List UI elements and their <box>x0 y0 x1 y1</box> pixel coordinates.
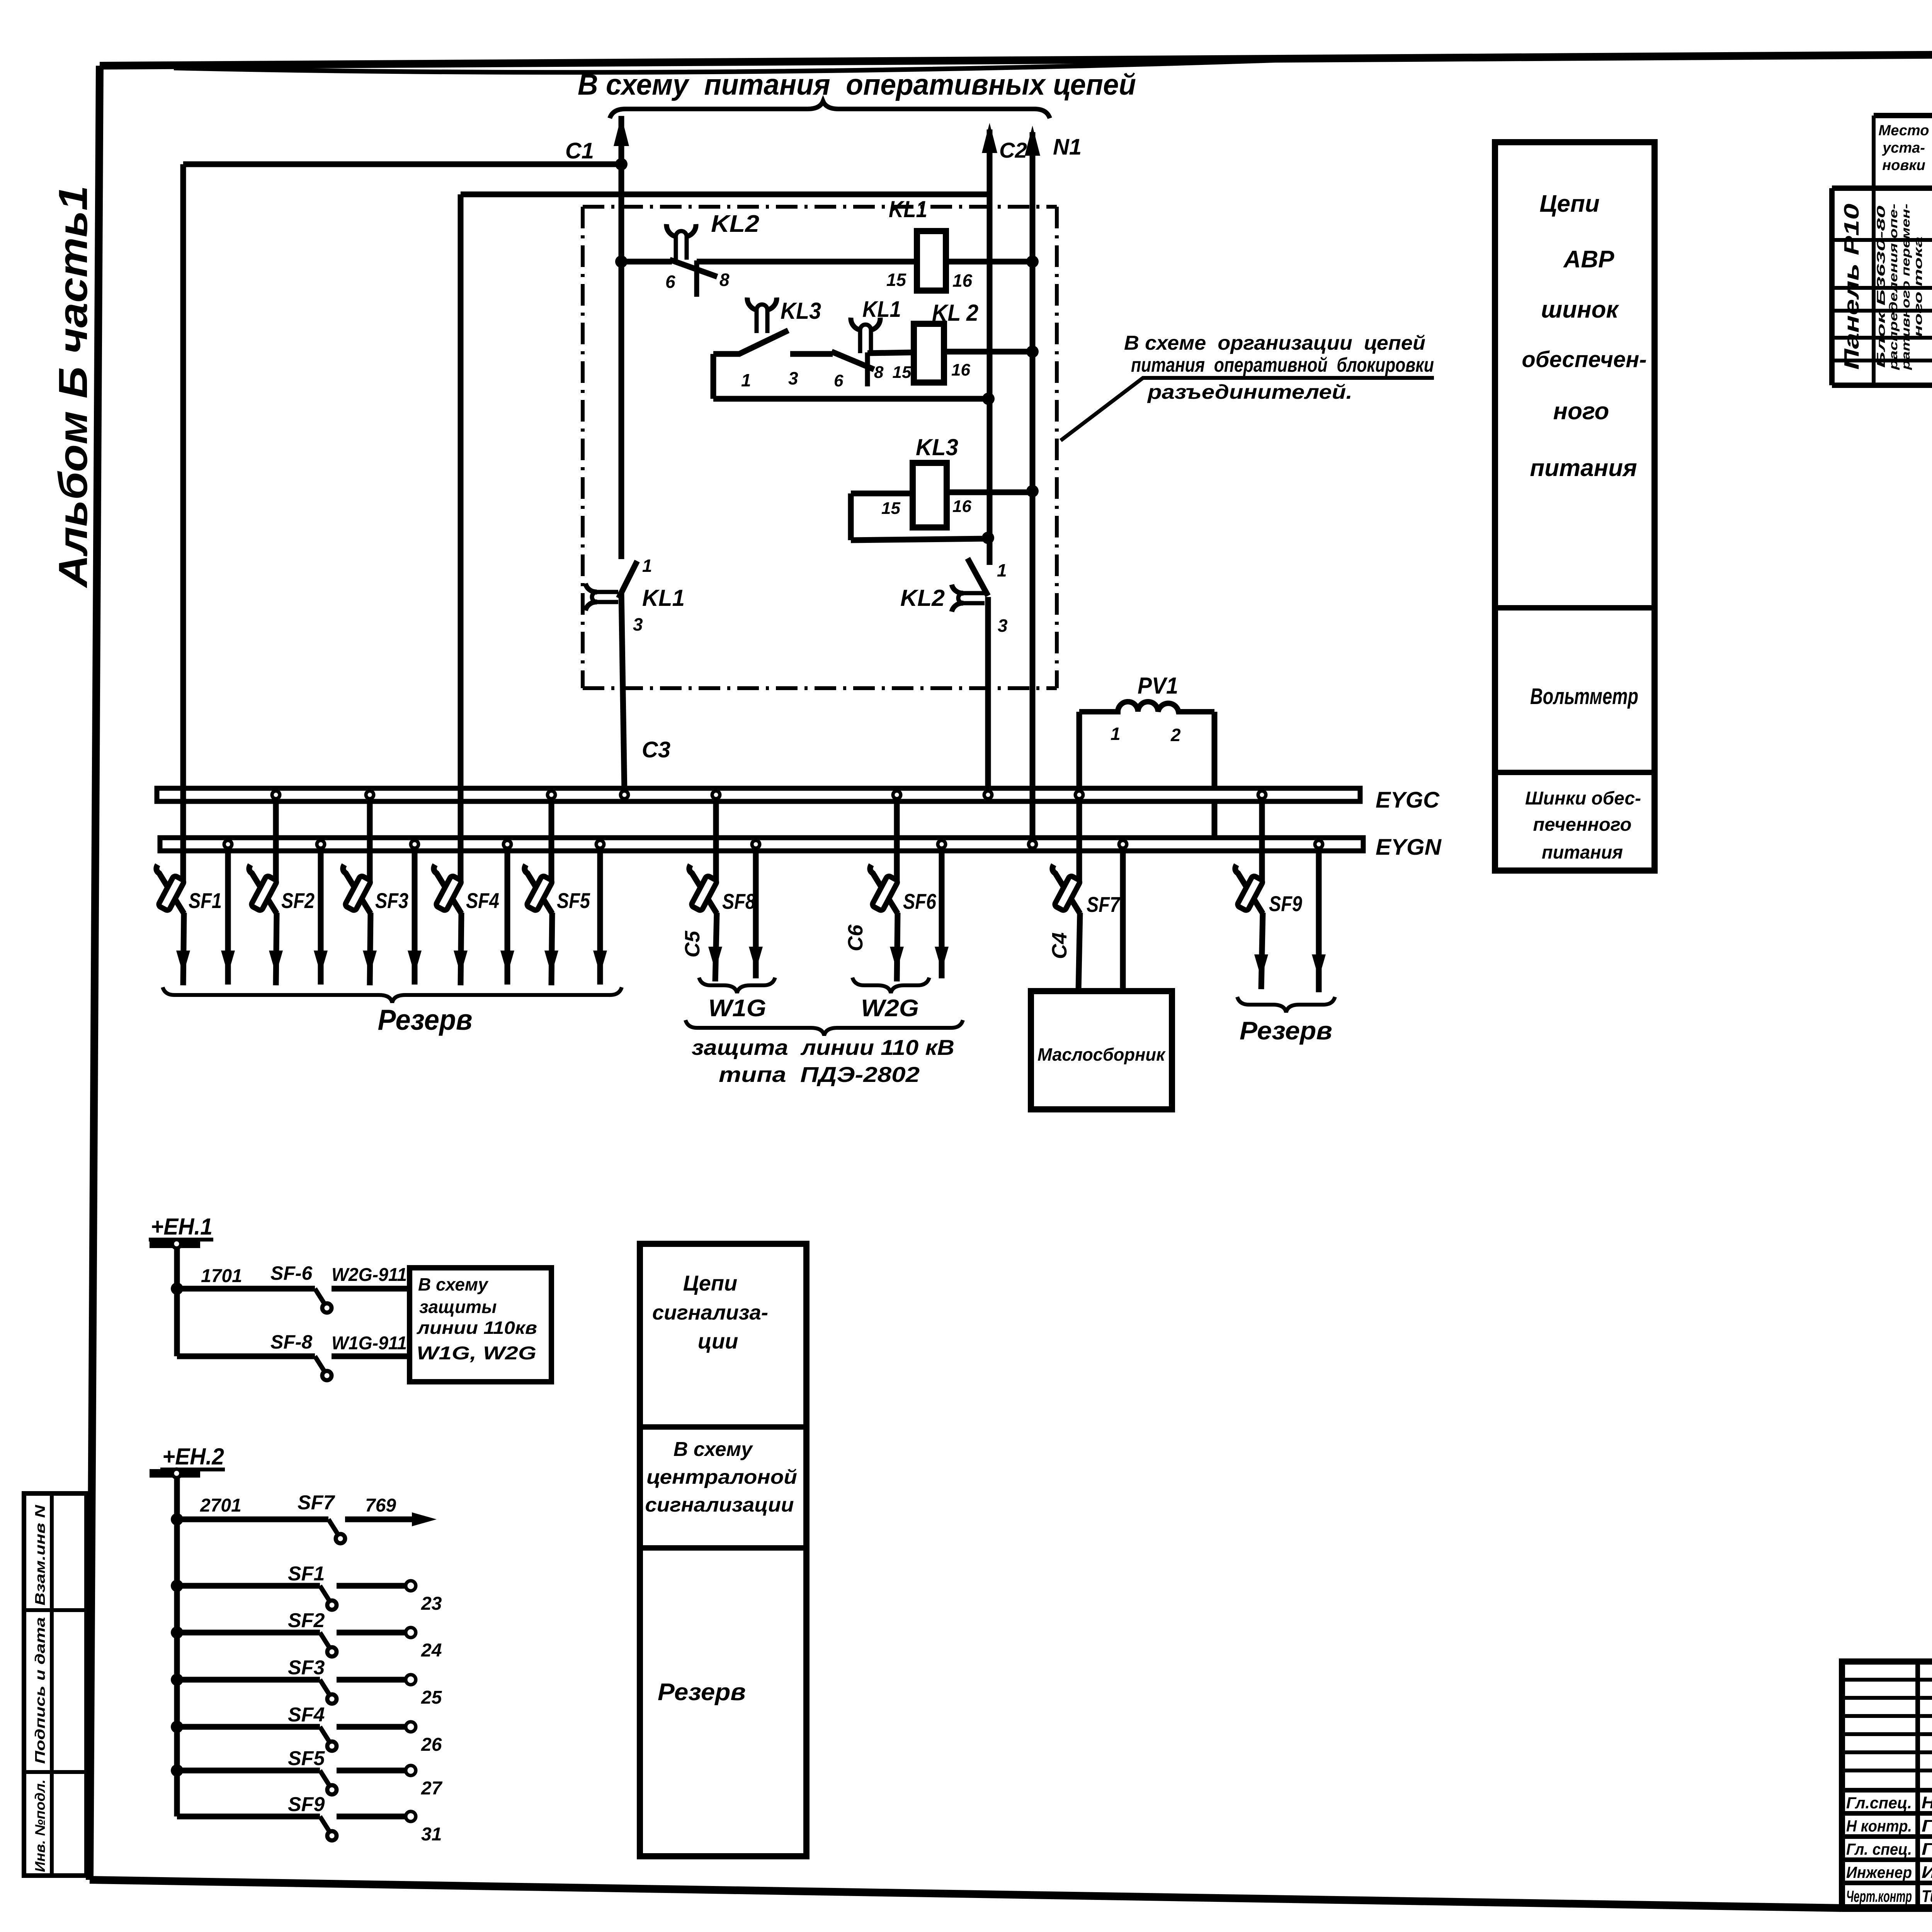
svg-text:16: 16 <box>951 361 970 379</box>
svg-text:769: 769 <box>365 1495 396 1516</box>
svg-text:C5: C5 <box>681 930 704 957</box>
svg-text:C6: C6 <box>844 924 867 951</box>
junction dot row2 return / C2 <box>982 393 995 405</box>
svg-text:KL2: KL2 <box>900 585 945 611</box>
tap SF3p2 on EYGN <box>411 840 418 848</box>
svg-text:В схему: В схему <box>418 1274 489 1294</box>
svg-text:SF2: SF2 <box>288 1609 325 1632</box>
svg-text:KL1: KL1 <box>862 297 901 322</box>
svg-text:питания: питания <box>1530 455 1637 481</box>
svg-text:Альбом Б часть1: Альбом Б часть1 <box>51 185 96 588</box>
wire: C1 feeder vertical to SF1 <box>180 164 186 883</box>
svg-text:16: 16 <box>952 270 973 291</box>
wire EH2 branch SF5 <box>171 1764 183 1777</box>
contact KL3 (1-3) row2 <box>755 310 759 333</box>
junction dot row3 / N1 <box>1026 485 1039 497</box>
svg-text:разъединителей.: разъединителей. <box>1147 381 1352 403</box>
svg-text:15: 15 <box>893 363 912 382</box>
tap N1 on EYGN <box>1029 840 1036 848</box>
svg-text:C2: C2 <box>999 138 1027 162</box>
wire EH2 branch 2701/SF7 <box>171 1513 183 1526</box>
svg-text:W1G, W2G: W1G, W2G <box>417 1343 536 1364</box>
svg-text:питания оперативной блокиров: питания оперативной блокировки <box>1131 354 1434 376</box>
wire N1 crossing bus EYGC <box>1030 788 1036 801</box>
tap SF7/PV1 on EYGC <box>1077 796 1082 883</box>
svg-text:SF8: SF8 <box>722 889 756 913</box>
breaker pole arrow <box>500 951 514 975</box>
svg-text:ративного перемен-: ративного перемен- <box>1900 204 1912 370</box>
svg-text:KL3: KL3 <box>916 434 958 460</box>
svg-text:1: 1 <box>642 556 652 576</box>
svg-text:SF6: SF6 <box>903 889 937 913</box>
svg-text:27: 27 <box>421 1778 443 1799</box>
svg-text:АВР: АВР <box>1563 246 1615 273</box>
svg-text:В схеме организации цепей: В схеме организации цепей <box>1124 332 1425 354</box>
svg-text:шинок: шинок <box>1541 296 1619 323</box>
svg-text:2701: 2701 <box>200 1495 241 1516</box>
vertical line N1 <box>1030 132 1036 842</box>
tap C2 on EYGC <box>984 791 992 799</box>
tap SF5p2 on EYGN <box>596 840 604 848</box>
svg-text:SF1: SF1 <box>288 1563 325 1585</box>
wire EH2 branch SF3 <box>171 1673 183 1686</box>
contact SF1 <box>320 1586 329 1600</box>
wire row2 return U <box>711 354 716 399</box>
breaker pole arrow <box>221 951 235 975</box>
svg-text:+EH.1: +EH.1 <box>151 1214 213 1240</box>
contact KL2 (1-3) on C2 line <box>963 591 985 595</box>
junction dot row1/C1 <box>615 255 628 268</box>
svg-text:6: 6 <box>665 272 675 292</box>
svg-text:SF2: SF2 <box>281 888 315 913</box>
svg-text:Никитин: Никитин <box>1922 1793 1932 1812</box>
svg-text:защита линии 110 кВ: защита линии 110 кВ <box>692 1035 954 1060</box>
wire row3 right <box>947 490 1032 495</box>
svg-text:EYGC: EYGC <box>1376 787 1440 813</box>
tap SF8p2 on EYGN <box>752 840 760 848</box>
svg-text:SF-6: SF-6 <box>270 1262 313 1284</box>
svg-text:Шинки обес-: Шинки обес- <box>1525 788 1641 809</box>
svg-text:3: 3 <box>788 368 798 388</box>
breaker pole arrow <box>314 951 328 975</box>
svg-text:1: 1 <box>997 560 1007 580</box>
svg-text:Маслосборник: Маслосборник <box>1037 1044 1166 1065</box>
tap SF7p2 on EYGN <box>1119 840 1127 848</box>
junction dot feeder1/C1 <box>615 158 628 170</box>
contact SF3 <box>320 1680 329 1694</box>
svg-text:сигнализации: сигнализации <box>645 1494 794 1516</box>
node C2 feeder arrow <box>982 123 997 153</box>
wire EH2 trunk <box>174 1478 180 1816</box>
svg-text:16: 16 <box>952 497 971 516</box>
contact SF7 <box>328 1519 338 1534</box>
svg-text:Резерв: Резерв <box>378 1003 473 1036</box>
tap SF9p2 on EYGN <box>1315 840 1323 848</box>
svg-text:Панель Р10: Панель Р10 <box>1840 204 1863 370</box>
junction dot row3 return / C2 <box>982 532 994 544</box>
svg-text:SF7: SF7 <box>1087 892 1121 917</box>
svg-text:Тимофеева: Тимофеева <box>1922 1887 1932 1906</box>
wire EH2 branch SF4 <box>171 1721 183 1733</box>
svg-text:Резерв: Резерв <box>1240 1016 1332 1045</box>
terminal 26 <box>406 1722 416 1732</box>
svg-text:типа ПДЭ-2802: типа ПДЭ-2802 <box>719 1062 920 1087</box>
svg-text:25: 25 <box>421 1687 442 1708</box>
callout pointer to dash-dot box <box>1061 378 1434 440</box>
breaker pole arrow <box>593 951 607 975</box>
wire EH2 branch SF9 <box>177 1814 320 1820</box>
bus EYGN <box>160 838 1363 851</box>
wire row2 mid-a <box>790 351 833 357</box>
contact KL2 (6-8) row1 <box>674 236 678 260</box>
svg-text:ции: ции <box>698 1329 738 1353</box>
svg-text:24: 24 <box>421 1640 442 1661</box>
svg-text:Иванова: Иванова <box>1922 1863 1932 1882</box>
svg-text:N1: N1 <box>1053 134 1082 160</box>
tap SF8 on EYGC <box>713 796 719 883</box>
terminal 31 <box>406 1811 416 1821</box>
svg-text:C3: C3 <box>642 737 670 762</box>
svg-text:W1G: W1G <box>708 995 766 1022</box>
breaker SF3 <box>343 865 371 913</box>
contact KL1 (1-3) on C3 line <box>597 590 618 594</box>
svg-text:SF3: SF3 <box>288 1656 325 1679</box>
sheet frame border <box>100 50 1932 66</box>
svg-text:ного тока: ного тока <box>1912 236 1925 337</box>
breaker pole arrow <box>408 951 422 975</box>
terminal 25 <box>406 1675 416 1685</box>
svg-text:SF3: SF3 <box>375 888 408 913</box>
svg-text:3: 3 <box>998 616 1008 636</box>
junction dot row2 / N1 <box>1026 345 1039 358</box>
wire row3 return <box>851 539 988 540</box>
svg-text:SF4: SF4 <box>288 1704 325 1726</box>
svg-text:8: 8 <box>874 363 884 382</box>
tap SF6p2 on EYGN <box>938 840 946 848</box>
contact SF2 <box>320 1633 329 1647</box>
svg-text:В схему питания оперативных: В схему питания оперативных цепей <box>578 68 1136 101</box>
svg-text:печенного: печенного <box>1533 815 1632 835</box>
signalling circuits box <box>640 1244 806 1856</box>
svg-text:Инженер: Инженер <box>1846 1863 1912 1881</box>
brace under heading <box>610 101 1050 118</box>
terminal 27 <box>406 1765 416 1776</box>
svg-text:Н контр.: Н контр. <box>1846 1817 1912 1835</box>
svg-text:В схему: В схему <box>673 1438 753 1461</box>
svg-text:новки: новки <box>1882 157 1925 173</box>
svg-text:KL1: KL1 <box>642 585 685 611</box>
svg-text:Блок Б3630-80: Блок Б3630-80 <box>1875 205 1888 368</box>
tap SF5 on EYGC <box>549 796 554 883</box>
wire: C1 feeder horizontal <box>183 162 621 167</box>
svg-text:Гл. спец.: Гл. спец. <box>1846 1840 1912 1858</box>
svg-text:SF-8: SF-8 <box>270 1331 313 1353</box>
contact SF4 <box>320 1727 329 1742</box>
svg-text:Горелик: Горелик <box>1922 1840 1932 1859</box>
svg-text:W2G-911: W2G-911 <box>332 1265 407 1285</box>
svg-text:Черт.контр: Черт.контр <box>1846 1887 1912 1905</box>
bus EYGC <box>157 788 1360 801</box>
reserve brace SF1-SF5 <box>163 987 622 1003</box>
dash-dot boundary box <box>583 205 1057 209</box>
svg-text:Подпись и дата: Подпись и дата <box>32 1617 48 1764</box>
contact SF5 <box>320 1770 329 1785</box>
svg-text:SF5: SF5 <box>557 888 590 913</box>
wire SF4 pole1 crossing buses <box>458 788 464 851</box>
contact KL1 (6-8) row2 <box>858 330 862 353</box>
box: В схему защиты линии <box>410 1268 551 1382</box>
contact SF-8 <box>315 1356 324 1371</box>
svg-text:C4: C4 <box>1048 932 1071 959</box>
wire row1 left <box>621 259 672 265</box>
wire row2 mid-b <box>867 352 914 353</box>
svg-text:C1: C1 <box>565 138 594 163</box>
wire row3 left step <box>848 493 854 540</box>
wire: feeder-2 horizontal <box>461 192 990 197</box>
svg-text:централоной: централоной <box>646 1466 797 1488</box>
wire EH2 branch SF1 <box>171 1580 183 1592</box>
svg-text:1701: 1701 <box>201 1266 242 1286</box>
breaker SF5 <box>525 865 552 913</box>
svg-text:PV1: PV1 <box>1138 673 1178 699</box>
breaker SF1 <box>156 865 184 913</box>
svg-text:W1G-911: W1G-911 <box>332 1333 407 1354</box>
svg-text:Место: Место <box>1879 122 1929 139</box>
vertical line C2 <box>987 129 993 565</box>
svg-text:W2G: W2G <box>861 995 919 1022</box>
breaker SF9 <box>1235 865 1263 913</box>
breaker SF8 <box>689 865 717 913</box>
tap SF6 on EYGC <box>894 796 900 883</box>
terminal 23 <box>406 1581 416 1591</box>
tap SF2p2 on EYGN <box>317 840 325 848</box>
svg-text:31: 31 <box>421 1824 442 1845</box>
node C1 feeder arrow <box>614 116 629 146</box>
breaker SF6 <box>870 865 898 913</box>
svg-text:Резерв: Резерв <box>658 1679 746 1706</box>
wire row2 right <box>944 349 1032 355</box>
wire EH1 branch 1701 <box>171 1282 183 1295</box>
svg-text:Цепи: Цепи <box>1539 190 1599 217</box>
tap SF3 on EYGC <box>367 796 373 883</box>
svg-text:уста-: уста- <box>1882 140 1925 156</box>
svg-text:SF1: SF1 <box>189 888 222 913</box>
svg-text:ного: ного <box>1553 398 1609 425</box>
wire EH1 trunk <box>174 1248 180 1356</box>
reserve brace SF9 <box>1237 997 1335 1012</box>
svg-text:Горелик: Горелик <box>1922 1816 1932 1835</box>
svg-text:+EH.2: +EH.2 <box>162 1444 224 1469</box>
svg-text:распределения опе-: распределения опе- <box>1887 204 1900 370</box>
svg-text:Цепи: Цепи <box>683 1271 737 1295</box>
vertical line C1/C3 <box>619 116 624 559</box>
svg-text:питания: питания <box>1542 842 1623 863</box>
svg-text:6: 6 <box>834 371 844 390</box>
oil collector box Маслосборник <box>1031 991 1172 1109</box>
wire EH1 branch W1G <box>177 1354 315 1359</box>
wire: feeder-2 vertical to SF4 <box>458 194 464 883</box>
ATS circuits box <box>1495 142 1655 871</box>
svg-text:8: 8 <box>719 270 730 290</box>
wire row1 mid <box>697 259 917 265</box>
svg-text:защиты: защиты <box>419 1297 497 1317</box>
tap SF9 on EYGC <box>1259 796 1265 883</box>
node N1 feeder arrow <box>1025 126 1040 156</box>
tap C3 on EYGC <box>621 791 628 799</box>
svg-text:KL2: KL2 <box>711 211 759 237</box>
svg-text:15: 15 <box>886 270 907 290</box>
title block <box>1842 1662 1932 1908</box>
bottom-left stamp table <box>24 1493 87 1876</box>
terminal 24 <box>406 1628 416 1638</box>
svg-text:1: 1 <box>1111 724 1121 744</box>
breaker SF7 <box>1053 865 1080 913</box>
protection caption brace <box>685 1020 963 1036</box>
svg-text:KL3: KL3 <box>781 298 821 324</box>
svg-text:Вольтметр: Вольтметр <box>1530 684 1638 709</box>
wire SF1 pole1 crossing buses <box>180 788 186 851</box>
wire row1 right <box>946 259 1032 265</box>
svg-text:SF9: SF9 <box>1269 891 1302 916</box>
svg-text:сигнализа-: сигнализа- <box>652 1301 768 1324</box>
svg-text:Инв. №подл.: Инв. №подл. <box>32 1779 48 1872</box>
svg-text:15: 15 <box>881 499 900 518</box>
svg-text:SF4: SF4 <box>466 888 499 913</box>
tap SF4p2 on EYGN <box>503 840 511 848</box>
tap SF1p2 on EYGN <box>224 840 232 848</box>
svg-text:23: 23 <box>421 1594 442 1614</box>
svg-text:SF5: SF5 <box>288 1747 325 1770</box>
svg-text:Взам.инв N: Взам.инв N <box>32 1505 48 1605</box>
svg-text:обеспечен-: обеспечен- <box>1522 347 1646 372</box>
svg-text:1: 1 <box>741 370 751 390</box>
contact SF9 <box>320 1816 329 1831</box>
svg-text:EYGN: EYGN <box>1376 835 1442 860</box>
svg-text:3: 3 <box>633 614 643 634</box>
cable group W1G <box>699 978 775 993</box>
svg-text:SF7: SF7 <box>298 1492 335 1514</box>
junction dot row1 / N1 <box>1026 255 1039 268</box>
svg-text:линии 110кв: линии 110кв <box>417 1318 537 1338</box>
svg-text:26: 26 <box>421 1735 442 1755</box>
svg-text:Гл.спец.: Гл.спец. <box>1846 1794 1912 1812</box>
wire row2 start <box>713 351 740 357</box>
svg-text:2: 2 <box>1170 725 1181 745</box>
svg-text:KL1: KL1 <box>889 196 927 222</box>
breaker SF4 <box>434 865 461 913</box>
contact SF-6 <box>315 1289 324 1303</box>
wire EH2 branch SF2 <box>171 1626 183 1639</box>
breaker SF2 <box>249 865 277 913</box>
svg-text:SF9: SF9 <box>288 1793 325 1816</box>
cable group W2G <box>852 978 929 993</box>
tap SF2 on EYGC <box>273 796 279 883</box>
